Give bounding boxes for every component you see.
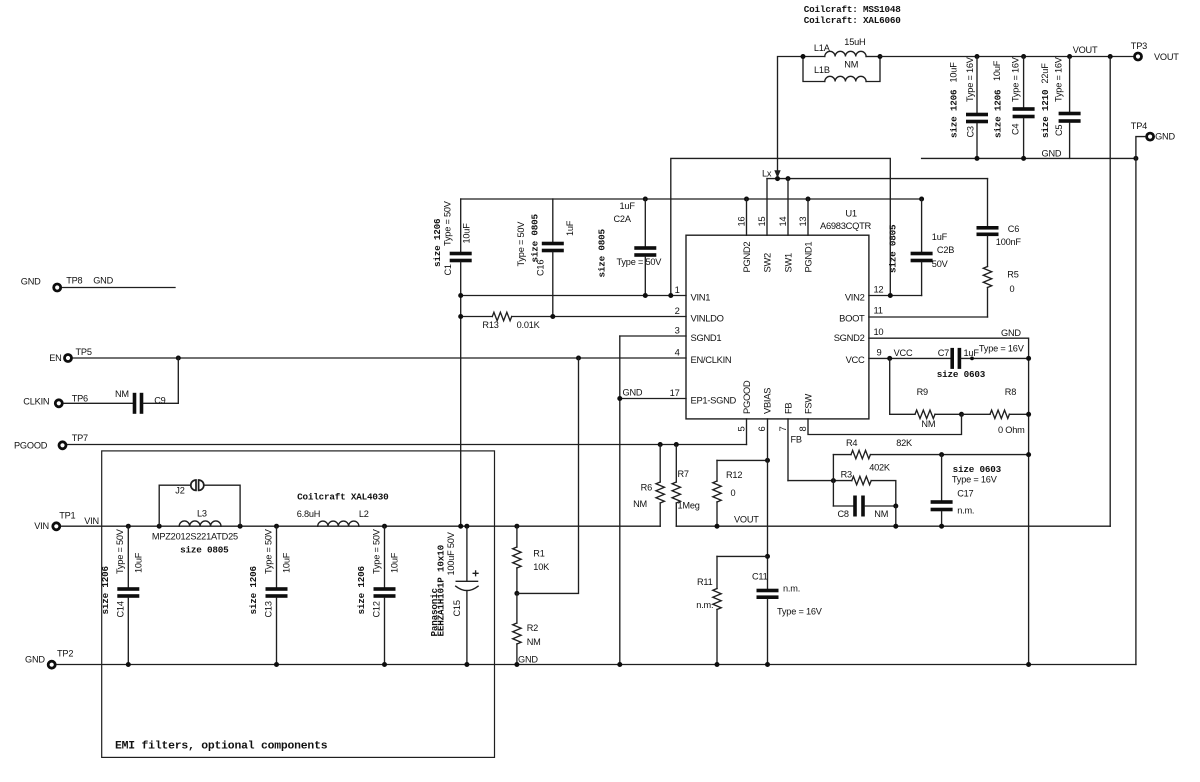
resistor R2 NM [513,623,521,644]
svg-text:FB: FB [783,403,794,414]
svg-text:NM: NM [921,419,935,429]
wire R13 to VINLDO pin 2 [512,316,686,318]
svg-text:VCC: VCC [894,348,913,358]
jumper J2 pins [191,480,196,490]
junction SGND vertical bottom [617,662,622,667]
junction VIN riser [458,524,463,529]
svg-text:0: 0 [1010,284,1015,294]
junction C3 top [975,54,980,59]
svg-text:GND: GND [623,388,643,398]
EMI filter box [102,451,495,758]
svg-text:size 1206: size 1206 [100,565,111,614]
wire L1A left lead [803,56,825,58]
wire PGND rail [461,198,922,200]
wire C2B top lead [921,199,923,252]
junction R12 bottom [715,524,720,529]
svg-text:R12: R12 [726,470,742,480]
junction C13 bottom [274,662,279,667]
svg-text:size 1206: size 1206 [993,89,1004,138]
resistor R7 1Meg [672,482,680,503]
junction R1 R2 [514,591,519,596]
svg-text:R11: R11 [697,577,713,587]
capacitor C4 10uF [1013,107,1035,111]
capacitor C2B 1uF [911,252,933,256]
junction C15 top [464,524,469,529]
junction VCC rail to GND vertical [1026,356,1031,361]
svg-text:0.01K: 0.01K [517,320,541,330]
svg-text:TP6: TP6 [72,394,88,404]
svg-text:EEHZA1H101P 10x10: EEHZA1H101P 10x10 [436,544,447,636]
svg-text:C13: C13 [264,601,274,617]
inductor L1B coil [825,76,866,81]
junction C4 bottom [1021,156,1026,161]
svg-text:8: 8 [797,427,808,432]
svg-text:C14: C14 [115,601,125,617]
junction C13 top [274,524,279,529]
wire FB pin 7 down [787,419,789,481]
wire EN feedback riser [517,358,579,593]
junction C7 right [970,357,974,361]
capacitor C11 n.m. [757,589,779,593]
svg-text:C12: C12 [372,601,382,617]
junction R12 to VBIAS [765,458,770,463]
svg-text:10K: 10K [533,562,550,572]
wire EP1-SGND pin 17 [620,398,686,400]
junction C14 top [126,524,131,529]
wire SGND1 pin 3 [620,335,686,337]
junction LX vertical [775,176,780,181]
inductor L3 MPZ2012S221ATD25 [179,521,221,526]
wire C12 top lead [384,526,386,587]
svg-text:5: 5 [736,427,747,432]
wire C9 to EN row [143,358,178,403]
wire SGND2 pin 10 to GND [869,338,1029,664]
svg-text:FSW: FSW [803,394,814,414]
svg-text:13: 13 [797,217,808,227]
wire C1 bottom / VIN riser [460,262,462,526]
svg-text:C7: C7 [938,348,949,358]
svg-text:0: 0 [731,488,736,498]
wire R9 to junction [935,413,962,415]
svg-text:TP7: TP7 [72,433,88,443]
svg-text:Type = 16V: Type = 16V [979,344,1025,354]
wire FB row to R3 [788,480,852,482]
wire R7 top lead [675,445,677,483]
svg-text:1uF: 1uF [565,220,575,236]
svg-text:NM: NM [844,60,858,70]
svg-text:C6: C6 [1008,224,1019,234]
svg-text:TP8: TP8 [66,276,82,286]
junction C14 bottom [126,662,131,667]
test point TP3 [1135,53,1142,60]
wire TP4 to rail [1136,137,1146,159]
wire R4 row right [870,454,1028,456]
svg-text:C17: C17 [957,489,973,499]
svg-text:EMI filters, optional componen: EMI filters, optional components [115,741,328,753]
inductor L1A 15uH [825,51,866,56]
resistor R8 0 Ohm [990,410,1009,418]
wire C14 bottom lead [127,598,129,665]
svg-text:J2: J2 [175,485,184,495]
svg-text:17: 17 [670,387,680,398]
resistor R9 NM [915,410,935,418]
svg-text:PGOOD: PGOOD [741,380,752,414]
wire VIN link pin1 to pin12 over IC [671,158,891,295]
svg-text:VIN: VIN [34,521,49,531]
wire SGND vertical [619,336,621,665]
resistor R11 n.m. [713,589,721,610]
svg-text:NM: NM [115,389,129,399]
resistor R13 0.01K [492,312,511,320]
junction R2 bottom [514,662,519,667]
wire C7 to GND vertical [961,357,1028,359]
wire GND bottom rail [57,664,1136,666]
junction L1 left node [801,54,806,59]
svg-text:100uF 50V: 100uF 50V [446,531,456,575]
svg-text:TP5: TP5 [76,347,92,357]
wire R2 bottom lead [516,644,518,665]
resistor R5 0 [983,267,991,288]
svg-text:R4: R4 [846,438,857,448]
capacitor C6 100nF [977,226,999,230]
svg-text:Coilcraft XAL4030: Coilcraft XAL4030 [297,492,389,503]
capacitor C15 100uF polarized [456,580,477,582]
svg-text:7: 7 [777,427,788,432]
wire SW2 pin 15 stub [766,179,768,236]
wire C6 top lead [987,179,989,226]
svg-text:EN: EN [49,353,61,363]
svg-text:R8: R8 [1005,387,1016,397]
svg-text:VOUT: VOUT [734,515,759,525]
wire C14 top lead [127,526,129,587]
wire FSW pin 8 to R9R8 junction [808,414,962,434]
svg-text:NM: NM [874,509,888,519]
capacitor C8 NM [853,496,857,517]
wire VCC pin 9 to C7 [869,357,951,359]
junction R7 top [674,442,679,447]
wire R12 bottom lead [716,502,718,526]
wire R7 bottom lead [675,503,677,526]
svg-text:GND: GND [518,655,538,665]
wire GND rail top right [922,157,1136,159]
capacitor C1 10uF [450,252,472,256]
wire J2 left [159,485,189,526]
test point TP2 [48,661,55,668]
svg-text:SW1: SW1 [783,253,794,273]
svg-text:16: 16 [736,217,747,227]
test point TP7 [59,442,66,449]
wire R1 bottom lead [516,568,518,593]
junction C15 bottom [464,662,469,667]
capacitor C14 10uF [117,587,139,591]
test point TP6 [55,400,62,407]
svg-text:R5: R5 [1007,270,1018,280]
svg-text:GND: GND [1042,149,1062,159]
svg-text:Type = 16V: Type = 16V [1010,56,1020,102]
test point TP1 [53,523,60,530]
wire R12 top lead [716,460,718,481]
wire C4 bottom lead [1023,119,1025,159]
svg-text:L1B: L1B [814,65,830,75]
capacitor C9 NM [133,393,137,414]
svg-text:VBIAS: VBIAS [762,388,773,414]
wire R11 bottom lead [716,610,718,665]
svg-text:size 0603: size 0603 [953,464,1002,475]
svg-text:Type = 16V: Type = 16V [1053,56,1063,102]
wire R6 bottom lead [659,503,661,526]
svg-text:VOUT: VOUT [1154,52,1179,62]
svg-text:Type = 50V: Type = 50V [115,528,125,574]
wire LX bracket SW pins to C6 [767,178,988,180]
wire C5 bottom lead [1069,123,1071,158]
resistor R1 10K [513,547,521,568]
junction C12 bottom [382,662,387,667]
svg-text:10uF: 10uF [992,60,1002,81]
svg-text:size 1206: size 1206 [248,565,259,614]
junction C4 top [1021,54,1026,59]
wire C1 top lead [460,199,462,252]
wire C4 top lead [1023,57,1025,108]
junction C12 top [382,524,387,529]
wire C17 top lead [941,455,943,501]
junction PGND1 pin13 [806,197,811,202]
wire C15 bottom lead [466,591,468,665]
svg-text:C8: C8 [838,509,849,519]
svg-text:C5: C5 [1054,125,1064,136]
wire R4C8 left vertical [832,455,834,506]
junction GND vertical bottom [1026,662,1031,667]
svg-text:1uF: 1uF [620,201,636,211]
wire PGND2 pin 16 stub [746,199,748,235]
junction R11 bottom [715,662,720,667]
svg-text:Type = 50V: Type = 50V [442,200,452,246]
junction R1 top [514,524,519,529]
svg-text:C3: C3 [966,126,976,137]
junction L3 right [238,524,243,529]
svg-text:1uF: 1uF [932,232,948,242]
junction L1 right node [878,54,883,59]
svg-text:Lx: Lx [762,169,772,179]
wire VCC down to R9 [890,358,915,414]
wire R11 top lead [716,556,718,588]
svg-text:C15: C15 [452,600,462,616]
svg-text:VIN: VIN [84,516,99,526]
wire LX from L1 left down to LX bracket [778,57,804,179]
wire R11 top bracket [717,555,768,557]
svg-text:Coilcraft: MSS1048: Coilcraft: MSS1048 [804,4,901,15]
capacitor C7 1uF [950,348,954,369]
wire TP6 to C9 [64,402,133,404]
capacitor C2A 1uF [634,246,656,250]
svg-text:size 0805: size 0805 [888,224,899,273]
svg-text:C1: C1 [443,264,453,275]
wire PGOOD pin 5 stub [746,419,748,445]
svg-text:n.m.: n.m. [783,584,800,594]
svg-text:0 Ohm: 0 Ohm [998,425,1025,435]
svg-text:Type = 16V: Type = 16V [777,607,823,617]
svg-text:TP4: TP4 [1131,121,1147,131]
wire TP8 stub [63,287,176,289]
inductor L2 6.8uH [318,521,359,526]
svg-text:size 1206: size 1206 [948,89,959,138]
junction R6 top [658,442,663,447]
junction FB node [831,478,836,483]
junction C5 top [1067,54,1072,59]
wire EN row TP5 to pin 4 [73,357,686,359]
wire R4 row left [833,454,851,456]
svg-text:PGOOD: PGOOD [14,440,48,450]
junction C16 bottom [550,314,555,319]
svg-text:6.8uH: 6.8uH [297,509,321,519]
wire VIN row [61,525,660,527]
wire C6 to R5 [987,236,989,266]
svg-text:EP1-SGND: EP1-SGND [691,395,737,406]
capacitor C17 n.m. [931,500,953,504]
wire C5 top lead [1069,57,1071,112]
resistor R6 NM [656,482,664,503]
svg-text:Type = 16V: Type = 16V [952,474,998,484]
wire C3 bottom lead [976,124,978,159]
svg-text:PGND2: PGND2 [741,242,752,273]
wire C8 row left [833,505,853,507]
svg-text:FB: FB [791,435,802,445]
svg-text:TP1: TP1 [59,510,75,520]
wire L1A right lead [866,56,880,58]
svg-text:Coilcraft: XAL6060: Coilcraft: XAL6060 [804,15,901,26]
svg-text:R1: R1 [533,549,544,559]
svg-text:CLKIN: CLKIN [23,397,49,407]
test point TP5 [65,355,72,362]
svg-text:size 0805: size 0805 [530,213,541,262]
svg-text:TP2: TP2 [57,649,73,659]
svg-text:100nF: 100nF [996,237,1022,247]
junction TP3 branch [1108,54,1113,59]
wire VINLDO row left of R13 [461,316,493,318]
svg-text:GND: GND [93,276,113,286]
svg-text:2: 2 [675,305,680,316]
wire J2 right [205,485,241,526]
svg-text:U1: U1 [845,208,856,219]
svg-text:15: 15 [756,217,767,227]
svg-text:SGND1: SGND1 [691,332,722,343]
wire L1B right [866,57,880,82]
svg-text:15uH: 15uH [844,37,865,47]
svg-text:4: 4 [675,347,680,358]
svg-text:14: 14 [777,217,788,227]
svg-text:R6: R6 [641,483,652,493]
capacitor C5 22uF [1059,112,1081,116]
wire R1 top lead [516,526,518,547]
wire PGND1 pin 13 stub [807,199,809,235]
svg-text:Type = 50V: Type = 50V [617,257,663,267]
svg-text:10uF: 10uF [948,62,958,83]
junction L3 left [157,524,162,529]
wire BOOT pin 11 [869,316,988,318]
svg-text:L2: L2 [359,509,369,519]
svg-text:R3: R3 [841,470,852,480]
wire C13 top lead [276,526,278,587]
wire PGOOD rail TP7 to pin 5 [68,444,747,446]
wire C11 bottom lead [767,599,769,664]
wire C2B bottom lead [921,262,923,295]
svg-text:1uF: 1uF [964,348,980,358]
svg-text:VCC: VCC [846,354,865,365]
wire C16 top lead [552,199,554,242]
junction C1 to R13 [458,314,463,319]
svg-text:22uF: 22uF [1040,63,1050,84]
svg-text:SW2: SW2 [762,253,773,273]
wire GND vertical x=1136 [1135,158,1137,664]
svg-text:50V: 50V [932,259,949,269]
resistor R3 402K [852,476,871,484]
wire C16 bottom lead [552,252,554,316]
junction TP4 to GND rail [1133,156,1138,161]
svg-text:C2A: C2A [614,214,632,224]
resistor R12 0 [713,481,721,502]
capacitor C12 10uF [374,587,396,591]
svg-text:10uF: 10uF [282,552,292,573]
svg-text:EN/CLKIN: EN/CLKIN [691,354,732,365]
junction C11 bottom [765,662,770,667]
svg-text:Type = 50V: Type = 50V [263,528,273,574]
svg-text:C2B: C2B [937,245,954,255]
svg-text:3: 3 [675,325,680,336]
svg-text:size 1210: size 1210 [1040,89,1051,138]
svg-text:10uF: 10uF [133,552,143,573]
wire C15 top lead [466,526,468,581]
capacitor C3 10uF [966,113,988,117]
junction C2A bottom [643,293,648,298]
svg-text:L1A: L1A [814,43,831,53]
svg-text:9: 9 [877,346,882,357]
svg-text:402K: 402K [869,463,891,473]
junction VIN link at pin1 [668,293,673,298]
svg-text:size 1206: size 1206 [432,218,443,267]
resistor R4 82K [851,450,870,458]
svg-text:NM: NM [527,637,541,647]
svg-text:TP3: TP3 [1131,41,1147,51]
svg-text:n.m.: n.m. [957,505,974,515]
svg-text:BOOT: BOOT [839,313,865,324]
svg-text:L3: L3 [197,509,207,519]
junction EN divider riser [576,356,581,361]
test point TP4 [1147,133,1154,140]
svg-text:VINLDO: VINLDO [691,313,724,324]
junction SW1 top [786,176,791,181]
svg-text:n.m.: n.m. [696,600,713,610]
junction C1 VIN row [458,293,463,298]
junction VCC node [887,356,892,361]
svg-text:GND: GND [1155,132,1175,142]
wire SW1 pin 14 stub [787,179,789,236]
op-amp U1 A6983CQTR body [686,235,869,419]
wire VOUT mid rail [676,525,1110,527]
wire VIN2 pin 12 to C2B [869,295,922,297]
wire C3 top lead [976,57,978,113]
svg-text:A6983CQTR: A6983CQTR [820,220,871,231]
svg-text:VIN2: VIN2 [845,292,865,303]
svg-text:1Meg: 1Meg [678,501,700,511]
wire R3 right down to C8 row [871,481,896,506]
junction R11 bracket [765,554,770,559]
svg-text:R2: R2 [527,623,538,633]
svg-text:NM: NM [633,499,647,509]
wire R6 top lead [659,445,661,483]
svg-text:SGND2: SGND2 [834,332,865,343]
junction C17 bottom [939,524,944,529]
junction VIN link at pin12 [888,293,893,298]
junction R9 R8 FSW [959,412,964,417]
